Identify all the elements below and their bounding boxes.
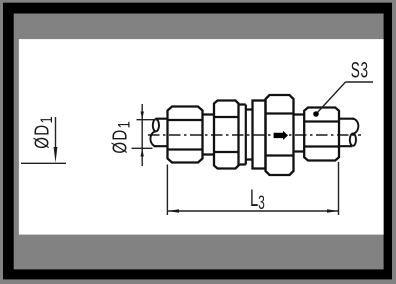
middle hex face lines — [214, 117, 239, 152]
big hex face lines — [266, 114, 294, 156]
cylinder section right of middle hex — [239, 105, 246, 165]
dimension L3: right arrow — [327, 209, 338, 213]
big hex body B3 — [266, 95, 294, 175]
white drawing area — [19, 39, 384, 235]
S3 leader dot — [313, 111, 319, 117]
left tube break lower arc — [150, 131, 156, 146]
S3 leader shelf — [346, 81, 374, 83]
cylinder right edge — [245, 105, 247, 165]
neck between left nut and middle hex — [203, 115, 215, 155]
thread undercut groove — [246, 110, 253, 160]
right tube break upper arc — [352, 119, 358, 134]
dimension L3: right extension line — [338, 162, 340, 215]
dimension ØD1 left: arrow — [54, 147, 58, 163]
neck between big hex and right nut — [294, 115, 305, 152]
flow direction arrow — [274, 131, 288, 140]
dimension ØD1 tube: dimension line — [141, 104, 143, 166]
locknut plate — [253, 101, 266, 169]
left tube — [154, 119, 168, 147]
S3 leader diagonal — [316, 82, 346, 114]
left nut face lines — [168, 120, 203, 150]
dimension L3: dimension line — [167, 210, 338, 212]
right nut face lines — [304, 122, 339, 147]
dimension ØD1 left: leader line — [55, 117, 57, 149]
dimension ØD1 tube: lower arrow — [141, 149, 144, 157]
left tube break — [153, 119, 159, 131]
dimension ØD1 tube: top extension line — [137, 119, 158, 121]
right nut B4 — [304, 108, 339, 161]
dimension ØD1 left: reference line — [21, 162, 66, 164]
right tube break — [350, 134, 356, 146]
dimension ØD1 tube: bottom extension line — [132, 147, 153, 149]
svg-text:S3: S3 — [351, 57, 369, 82]
dimension ØD1 tube: upper arrow — [141, 112, 144, 120]
dimension L3: left arrow — [168, 209, 179, 213]
right tube — [339, 119, 354, 147]
dimension L3: left extension line — [166, 165, 168, 216]
left nut B1 — [168, 107, 203, 163]
centerline (dash-dot) — [148, 134, 361, 136]
middle hex B2 — [214, 101, 239, 169]
